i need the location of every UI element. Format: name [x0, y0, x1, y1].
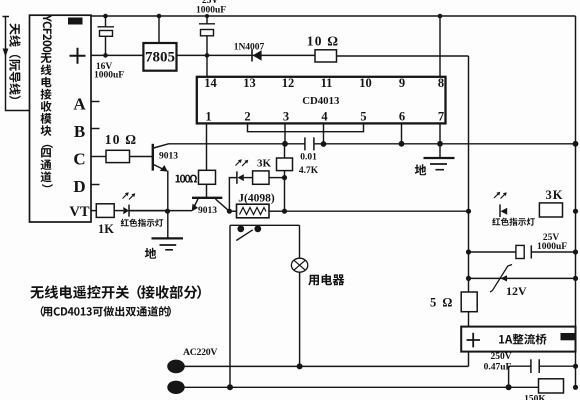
node: contact loop junction — [227, 384, 233, 390]
LED D2 light arrows — [123, 194, 135, 200]
svg-text:4.7K: 4.7K — [299, 166, 319, 176]
node: C4 junctions — [466, 249, 471, 254]
right rail — [575, 16, 577, 387]
node: rail junction — [573, 209, 578, 214]
wire R4 to Q2 base — [206, 184, 208, 197]
pin 1 column — [206, 123, 208, 170]
bridge rectifier 1A整流桥 — [461, 327, 575, 352]
bridge bottom column — [468, 352, 470, 367]
svg-text:250V: 250V — [490, 352, 511, 362]
svg-text:D: D — [73, 177, 85, 196]
svg-text:3K: 3K — [257, 158, 272, 170]
antenna wire — [3, 17, 30, 111]
resistor R3 1K — [96, 204, 114, 218]
node: C1 bottom junction — [103, 53, 108, 58]
lamp (用电器) symbol — [291, 258, 307, 272]
resistor R7 3K — [539, 203, 562, 217]
resistor R1 10Ω — [315, 50, 337, 62]
capacitor C1 16V 1000uF — [98, 16, 115, 27]
svg-text:8: 8 — [438, 76, 444, 90]
svg-text:11: 11 — [321, 76, 333, 90]
node: pin8 top junction — [438, 14, 443, 19]
op IC U1 CD4013 — [197, 77, 446, 124]
capacitor C4 25V 1000uF — [516, 245, 524, 258]
relay contact points — [237, 225, 244, 232]
relay contact top wire — [230, 224, 300, 226]
relay contact arm — [236, 230, 253, 241]
pin 6 column — [401, 123, 403, 143]
svg-text:1000uF: 1000uF — [94, 71, 124, 81]
column to coil row — [284, 178, 286, 212]
svg-text:J(4098): J(4098) — [238, 193, 275, 205]
AC wire 1 — [176, 365, 469, 367]
LED D3 — [236, 171, 238, 183]
Q1 emitter column — [167, 171, 169, 239]
svg-text:14: 14 — [204, 76, 217, 90]
resistor R6 4.7K — [277, 158, 293, 171]
svg-text:A: A — [73, 95, 86, 114]
AC terminal 2 — [167, 381, 184, 394]
svg-text:9013: 9013 — [198, 206, 217, 216]
pin 14 column — [206, 55, 208, 76]
top supply wire — [91, 15, 576, 17]
wire 7805 output — [177, 54, 316, 56]
svg-text:1K: 1K — [98, 222, 114, 236]
svg-text:10 Ω: 10 Ω — [105, 132, 138, 147]
node: R5/R6 junction — [282, 175, 287, 180]
relay contact loop left edge — [229, 225, 231, 387]
resistor R5 3K — [253, 171, 269, 184]
svg-text:3: 3 — [283, 110, 289, 124]
wire R1 to right column — [337, 55, 469, 57]
pin A stub — [91, 101, 100, 103]
lamp column — [299, 225, 301, 258]
node junctions on collector row — [282, 141, 288, 147]
capacitor C2 25V 1000uF — [199, 16, 215, 24]
node: coil row junction — [282, 209, 287, 214]
wire coil row — [229, 210, 236, 212]
LED D3 light arrows — [236, 161, 248, 167]
svg-text:12: 12 — [282, 76, 295, 90]
svg-text:2: 2 — [244, 110, 250, 124]
antenna label 天线（阮导线） — [9, 23, 21, 99]
node: rail/coil row junction — [466, 209, 471, 214]
node: C1 top junction — [103, 14, 108, 19]
svg-text:4: 4 — [321, 110, 328, 124]
svg-text:1000uF: 1000uF — [196, 6, 226, 16]
svg-text:1000uF: 1000uF — [537, 242, 567, 252]
svg-text:13: 13 — [243, 76, 256, 90]
pin 4 column — [323, 123, 325, 144]
pin D stub — [91, 184, 100, 186]
svg-text:12V: 12V — [506, 284, 527, 298]
label 地 (left) — [145, 248, 156, 259]
zener D5 12V — [490, 265, 512, 293]
title 无线电遥控开关（接收部分） — [30, 285, 201, 299]
middle right rail — [468, 56, 470, 292]
svg-text:AC220V: AC220V — [183, 347, 217, 358]
transistor Q1 9013 — [152, 144, 154, 171]
resistor R4 100Ω — [199, 170, 216, 184]
svg-text:9: 9 — [399, 76, 405, 90]
AC terminal 1 — [167, 360, 185, 374]
LED D4 red indicator — [499, 204, 501, 217]
relay coil J — [237, 204, 270, 218]
wire zener row — [469, 277, 576, 279]
node: zener junctions — [466, 276, 471, 281]
label 红色指示灯 (right) — [492, 218, 535, 226]
node: C2 junctions — [205, 14, 209, 18]
wire R5 to 4.7K junction — [269, 177, 285, 179]
module vertical label YCF200无线电接收模块（四通道） — [41, 15, 53, 187]
node: snubber junctions — [573, 364, 578, 369]
svg-text:1: 1 — [205, 110, 211, 124]
wire Q1 collector row — [168, 143, 305, 145]
subtitle （用CD4013可做出双通道的） — [41, 306, 171, 317]
wire R2 to Q1 base — [130, 156, 153, 158]
wire C4 row — [469, 251, 516, 253]
wire bracket pins 2-5 — [248, 123, 364, 131]
svg-text:0.47uF: 0.47uF — [484, 362, 512, 372]
ground (pin 7) — [424, 157, 455, 159]
7805 input column — [158, 16, 160, 43]
capacitor C5 0.47uF 250V — [509, 365, 531, 367]
wire R8 to bridge — [468, 312, 470, 327]
svg-text:6: 6 — [399, 110, 405, 124]
svg-text:10: 10 — [359, 76, 372, 90]
transistor Q2 9013 — [192, 197, 222, 199]
wire pin3 row to R6 — [284, 144, 286, 158]
svg-text:7805: 7805 — [145, 50, 175, 66]
svg-text:10 Ω: 10 Ω — [307, 34, 340, 49]
wire VT pin — [91, 210, 96, 212]
node: Q2 collector junction — [227, 209, 232, 214]
resistor R8 5Ω — [461, 292, 477, 312]
capacitor C3 0.01 (series) — [305, 137, 314, 150]
node: lamp to AC wire junction — [297, 363, 303, 369]
AC wire 2 — [176, 386, 539, 388]
resistor R2 10Ω — [106, 150, 130, 162]
ground (Q1 emitter) — [152, 237, 184, 239]
LED D2 red indicator — [114, 210, 123, 212]
LED D4 light arrows — [494, 193, 506, 199]
wire module + to 7805 — [91, 54, 143, 56]
pin 8 column — [439, 16, 441, 77]
svg-text:1N4007: 1N4007 — [234, 43, 265, 53]
label 地 (right) — [415, 164, 426, 175]
pin 7 column — [439, 123, 441, 157]
svg-text:7: 7 — [438, 110, 444, 124]
svg-text:0.01: 0.01 — [300, 153, 317, 163]
svg-text:CD4013: CD4013 — [302, 95, 340, 107]
receiver module YCF200 box — [30, 15, 92, 222]
pin 3 column — [284, 123, 286, 143]
resistor R9 150K — [539, 379, 564, 393]
regulator 7805 — [143, 43, 176, 71]
diode D1 1N4007 — [251, 50, 253, 62]
module antenna pin (black bar) — [68, 18, 83, 25]
node: rail bottom junction — [573, 385, 578, 390]
svg-text:3K: 3K — [546, 188, 564, 202]
module + pin symbol — [70, 48, 86, 64]
label 红色指示灯 (left) — [121, 219, 164, 227]
svg-text:VT: VT — [69, 204, 89, 220]
label 100Ω — [176, 175, 198, 183]
snubber branch column — [508, 366, 510, 387]
wire module C to R2 — [91, 156, 106, 158]
svg-text:5: 5 — [360, 110, 366, 124]
pin B stub — [91, 128, 100, 130]
svg-text:B: B — [74, 122, 85, 141]
svg-text:5 Ω: 5 Ω — [430, 296, 454, 310]
svg-text:150K: 150K — [524, 395, 546, 400]
antenna arrowhead — [3, 49, 9, 58]
node: emitter/VT junction — [165, 209, 170, 214]
wire LED/coil row from D2 — [129, 210, 192, 212]
svg-text:9013: 9013 — [159, 152, 178, 162]
svg-text:C: C — [73, 150, 85, 169]
node: 7805 input junction — [157, 14, 162, 19]
label 用电器 — [308, 274, 344, 286]
branch column Q2 collector to LED row — [229, 178, 237, 212]
